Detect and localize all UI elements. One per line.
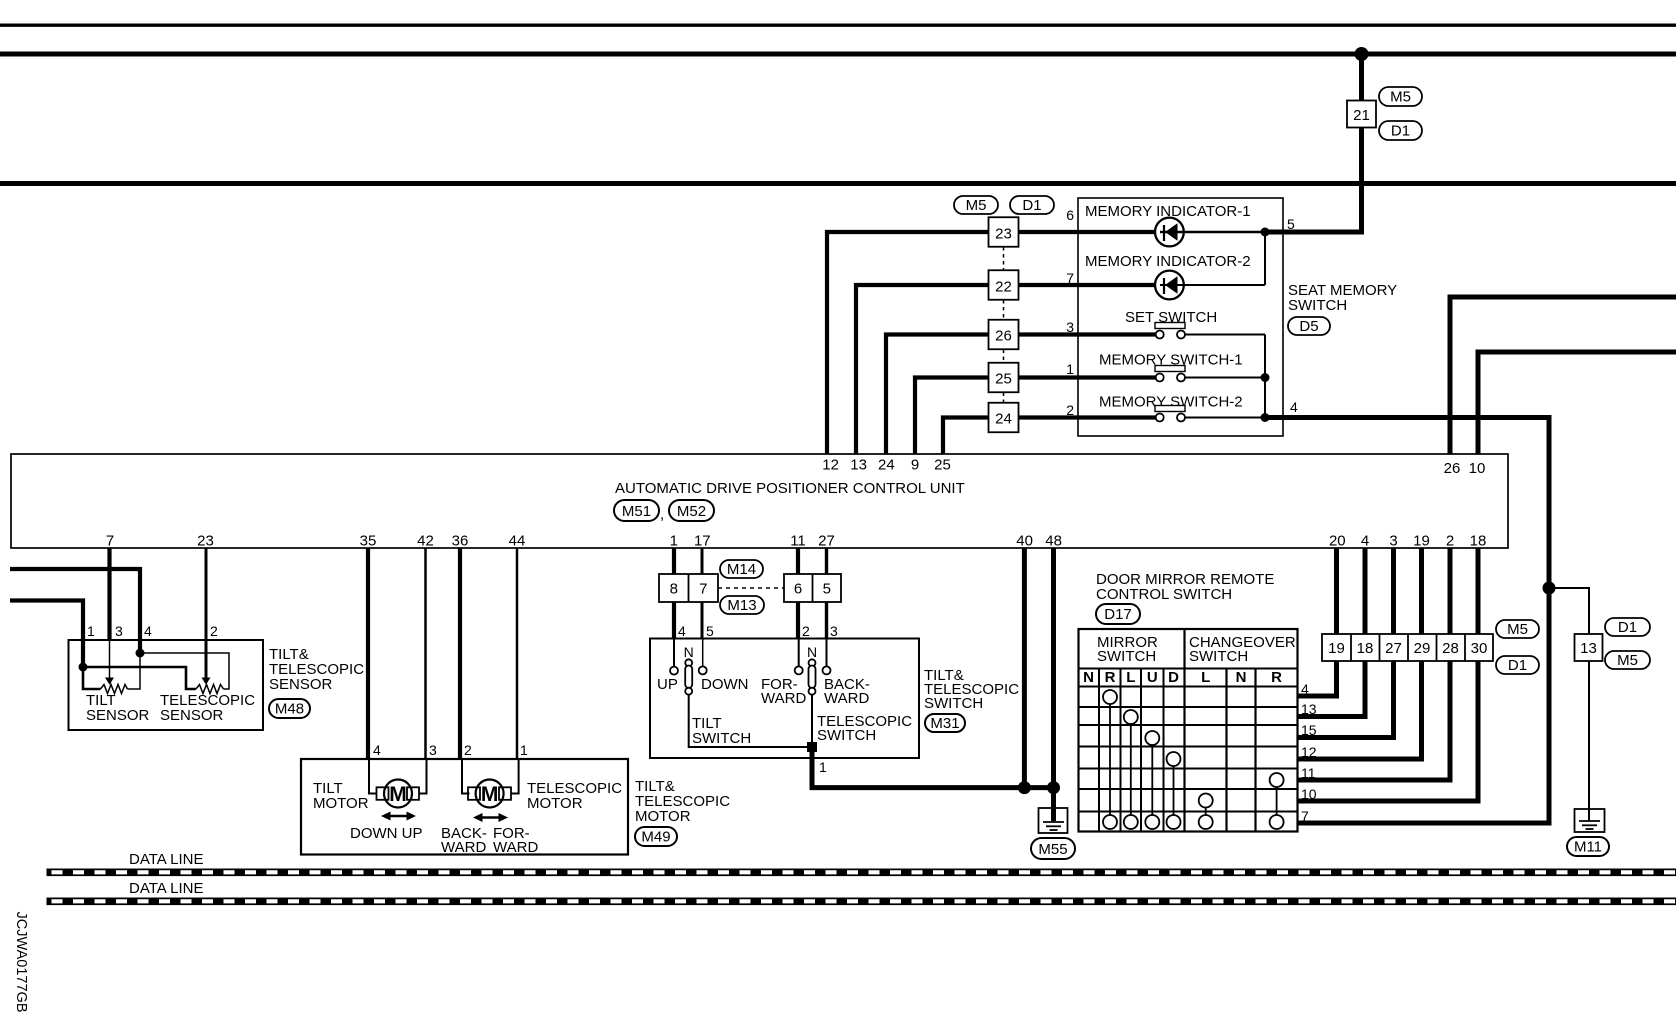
set switch (momentary) (1078, 323, 1265, 339)
wire: tilt lever common to junction (689, 695, 807, 747)
wire: pin4 net to telescopic pot right end (140, 653, 229, 689)
svg-text:21: 21 (1353, 107, 1370, 124)
svg-text:D1: D1 (1022, 197, 1041, 214)
svg-text:AUTOMATIC DRIVE POSITIONER CON: AUTOMATIC DRIVE POSITIONER CONTROL UNIT (615, 480, 965, 497)
wire: LED1 node down to LED2 (1264, 232, 1266, 285)
svg-text:D1: D1 (1618, 619, 1637, 636)
label: SEAT MEMORY SWITCH (1288, 282, 1397, 314)
switch internal: pin 5 lead and DOWN contact (699, 639, 707, 675)
tilt & telescopic switch M31 box (650, 639, 919, 759)
svg-text:7: 7 (106, 533, 114, 550)
svg-text:N: N (807, 644, 817, 660)
node: ground rail junction pin 48 (1047, 781, 1060, 794)
seat memory switch D5 (1078, 198, 1283, 436)
wire: motor pin 3 lead to tilt motor (419, 759, 427, 794)
svg-text:N: N (1083, 669, 1094, 686)
wire: pin 20 to mirror switch row 4 (1298, 548, 1337, 696)
wire: control unit pin 24 to connector 26 to seat memory pin 3 (886, 335, 1078, 455)
dashed link between connector pairs (718, 587, 784, 589)
svg-text:SWITCH: SWITCH (1189, 648, 1248, 665)
dashed links between stacked connectors (1003, 247, 1005, 403)
svg-text:M51: M51 (622, 503, 651, 520)
svg-text:12: 12 (1301, 744, 1317, 760)
svg-text:WARD: WARD (441, 839, 486, 856)
label: TILT & TELESCOPIC SENSOR (269, 646, 364, 693)
svg-text:23: 23 (995, 226, 1012, 243)
svg-text:18: 18 (1357, 640, 1374, 657)
label D1 oval (1379, 121, 1422, 140)
wire: motor pin 1 lead to telescopic motor (511, 759, 519, 794)
svg-text:5: 5 (1287, 216, 1295, 232)
svg-text:M5: M5 (1617, 652, 1638, 669)
svg-text:5: 5 (823, 581, 831, 598)
svg-text:13: 13 (1301, 701, 1317, 717)
wire: control unit pin 42 to motor box pin 3 (424, 548, 427, 759)
svg-text:MOTOR: MOTOR (635, 808, 691, 825)
mirror switch contact chain R column (1103, 690, 1117, 829)
node: sensor pin 1 junction (79, 663, 88, 672)
svg-text:1: 1 (819, 759, 827, 775)
telescopic motor direction arrow (473, 813, 508, 822)
svg-text:3: 3 (1066, 319, 1074, 335)
svg-text:7: 7 (699, 581, 707, 598)
tilt & telescopic sensor M48 (69, 640, 264, 730)
svg-text:CONTROL SWITCH: CONTROL SWITCH (1096, 586, 1232, 603)
label M14 oval (720, 560, 763, 578)
svg-text:29: 29 (1414, 640, 1431, 657)
power bus line 3 (0, 181, 1676, 186)
wire: control unit pin 12 to connector 23 to seat memory pin 6 (827, 232, 1078, 454)
svg-text:2: 2 (1066, 402, 1074, 418)
svg-text:N: N (684, 644, 694, 660)
svg-text:M11: M11 (1574, 839, 1602, 856)
svg-text:4: 4 (373, 742, 381, 758)
mirror switch contact chain L column (1124, 710, 1138, 829)
svg-text:10: 10 (1301, 786, 1317, 802)
svg-text:11: 11 (790, 533, 806, 550)
wire: control unit pin 11 to connector 6 to switch pin 2 (796, 548, 800, 639)
svg-text:DATA LINE: DATA LINE (129, 880, 203, 897)
svg-text:13: 13 (1580, 640, 1597, 657)
svg-text:M13: M13 (727, 597, 756, 614)
label M5 oval (connector 13) (1605, 651, 1650, 669)
svg-text:27: 27 (1385, 640, 1402, 657)
svg-text:7: 7 (1066, 270, 1074, 286)
svg-text:19: 19 (1328, 640, 1345, 657)
connector pair 6|5 (M14/M13) (784, 574, 841, 602)
svg-text:D: D (1168, 669, 1179, 686)
node: LED1 junction (1261, 228, 1270, 237)
svg-text:SWITCH: SWITCH (817, 727, 876, 744)
svg-text:4: 4 (1290, 399, 1298, 415)
telescopic switch lever (N) (807, 644, 817, 695)
svg-text:1: 1 (1066, 361, 1074, 377)
mirror switch contact chain U column (1145, 731, 1159, 829)
label M5 oval (strip) (1496, 620, 1539, 638)
label M31 oval (925, 714, 965, 732)
label M5 oval (above connector 23) (954, 196, 998, 214)
label M5 oval (1379, 87, 1422, 106)
connector 24 (989, 403, 1019, 433)
connector 25 (989, 363, 1019, 393)
tilt motor M (377, 780, 420, 808)
memory switch-1 (momentary) (1078, 366, 1265, 382)
wire: set switch node chain down to pin 4 row (1264, 335, 1266, 418)
label M13 oval (720, 596, 764, 614)
svg-text:5: 5 (706, 623, 714, 639)
tilt motor direction arrow (381, 812, 416, 821)
wire: control unit pin 27 to connector 5 to switch pin 3 (825, 548, 828, 639)
svg-text:40: 40 (1016, 533, 1033, 550)
svg-text:D17: D17 (1104, 606, 1132, 623)
svg-text:17: 17 (694, 533, 711, 550)
wire: seat memory pin 4 to mirror switch row 7 (long run) (1265, 418, 1549, 824)
memory indicator-1 LED (1078, 218, 1265, 247)
svg-text:SWITCH: SWITCH (1288, 297, 1347, 314)
node: junction on bus line 2 (1355, 47, 1369, 61)
switch internal: pin 2 lead and FOR-WARD contact (795, 639, 803, 675)
changeover switch contact chain R column (1270, 773, 1284, 829)
svg-text:JCJWA0177GB: JCJWA0177GB (13, 912, 29, 1013)
svg-text:M5: M5 (1507, 621, 1528, 638)
svg-text:42: 42 (417, 533, 434, 550)
svg-text:M31: M31 (930, 715, 959, 732)
wire: pin 2 to mirror switch row 11 (1298, 548, 1451, 780)
connector 21 (M5/D1) (1347, 101, 1376, 128)
label D1 oval (connector 13) (1605, 618, 1650, 636)
svg-text:L: L (1126, 669, 1135, 686)
switch internal: pin 4 lead and UP contact (670, 639, 678, 675)
svg-text:3: 3 (115, 623, 123, 639)
svg-text:DATA LINE: DATA LINE (129, 851, 203, 868)
svg-text:M: M (389, 783, 407, 806)
telescopic sensor potentiometer (196, 685, 224, 694)
svg-text:3: 3 (830, 623, 838, 639)
svg-text:1: 1 (670, 533, 678, 550)
label D5 oval (1288, 317, 1330, 335)
svg-text:26: 26 (1444, 460, 1461, 477)
node: ground rail junction pin 40 (1018, 781, 1031, 794)
label D17 oval (1096, 604, 1140, 624)
node: junction on pin4 run to ground branch (1543, 582, 1556, 595)
svg-text:U: U (1147, 669, 1158, 686)
switch internal: pin 3 lead and BACK-WARD contact (823, 639, 831, 675)
tilt & telescopic motor M49 box (301, 759, 628, 856)
connector strip 19 18 27 29 28 30 (1322, 634, 1493, 661)
data line 1 (CAN bus) (47, 869, 1676, 877)
svg-text:19: 19 (1413, 533, 1430, 550)
label D1 oval (above connector 23) (1010, 196, 1054, 214)
svg-text:MOTOR: MOTOR (313, 795, 369, 812)
telescopic motor M (468, 780, 511, 808)
wire: control unit pin 10 to right edge (1478, 352, 1676, 454)
svg-text:R: R (1105, 669, 1116, 686)
label: DOOR MIRROR REMOTE CONTROL SWITCH (1096, 571, 1274, 603)
wire: control unit pin 17 to connector 7 to switch pin 5 (701, 548, 704, 639)
wire: telescopic lever common to junction (811, 695, 813, 744)
power bus line 1 (0, 24, 1676, 27)
svg-text:R: R (1271, 669, 1282, 686)
connector 26 (989, 320, 1019, 350)
svg-text:3: 3 (429, 742, 437, 758)
svg-text:25: 25 (934, 457, 951, 474)
wire: control unit pin 1 to connector 8 to switch pin 4 (672, 548, 676, 639)
svg-text:WARD: WARD (761, 690, 806, 707)
mirror switch table D17 (1079, 629, 1298, 832)
changeover switch contact chain L column (1199, 794, 1213, 830)
wire: control unit pin 25 to connector 24 to seat memory pin 2 (943, 418, 1078, 455)
svg-text:7: 7 (1301, 808, 1309, 824)
svg-text:27: 27 (818, 533, 835, 550)
svg-text:6: 6 (794, 581, 802, 598)
svg-text:SWITCH: SWITCH (692, 730, 751, 747)
svg-text:1: 1 (87, 623, 95, 639)
svg-text:M14: M14 (727, 561, 756, 578)
svg-text:SWITCH: SWITCH (1097, 648, 1156, 665)
wire: control unit pin 36 to motor box pin 2 (458, 548, 462, 759)
control unit bottom pin labels (106, 533, 1487, 550)
node: memory switch-1 junction (1261, 373, 1270, 382)
label: TILT & TELESCOPIC SWITCH (924, 667, 1019, 712)
power bus line 2 (0, 52, 1676, 57)
wire: pin1 net to tilt pot left end (83, 667, 101, 689)
label M48 oval (269, 699, 310, 718)
tilt sensor potentiometer (101, 685, 128, 694)
wire: control unit pin 44 to motor box pin 1 (516, 548, 519, 759)
label M49 oval (635, 827, 677, 846)
wire: pin 18 to mirror switch row 10 (1298, 548, 1479, 801)
svg-text:36: 36 (452, 533, 469, 550)
svg-text:4: 4 (678, 623, 686, 639)
connector 13 (D1/M5) (1575, 634, 1603, 661)
svg-text:SENSOR: SENSOR (160, 707, 224, 724)
svg-text:SENSOR: SENSOR (86, 707, 150, 724)
mirror switch row pin labels 4 13 15 12 11 10 7 (1301, 681, 1317, 824)
svg-text:M52: M52 (677, 503, 706, 520)
svg-text:28: 28 (1442, 640, 1459, 657)
svg-text:26: 26 (995, 328, 1012, 345)
svg-text:9: 9 (911, 457, 919, 474)
svg-text:L: L (1201, 669, 1210, 686)
connector 22 (989, 270, 1019, 300)
ground symbol M55 (1039, 788, 1068, 833)
wire: control unit pin 9 to connector 25 to seat memory pin 1 (915, 378, 1078, 455)
svg-text:23: 23 (197, 533, 214, 550)
svg-text:4: 4 (1361, 533, 1369, 550)
wire: pin 19 to mirror switch row 12 (1298, 548, 1422, 759)
svg-text:6: 6 (1066, 207, 1074, 223)
svg-text:M5: M5 (1390, 89, 1411, 106)
svg-text:30: 30 (1471, 640, 1488, 657)
node: switch common junction (square) (807, 742, 817, 752)
svg-text:35: 35 (360, 533, 377, 550)
svg-text:WARD: WARD (493, 839, 538, 856)
svg-text:M55: M55 (1038, 841, 1067, 858)
wire: off-page feed to tilt sensor pin 1 (10, 601, 83, 668)
label M51 oval (614, 500, 664, 523)
wire: pin4 net to tilt pot right end (128, 653, 141, 689)
wire: pin1 net to telescopic pot left end (83, 667, 196, 689)
svg-text:44: 44 (509, 533, 526, 550)
svg-text:D1: D1 (1508, 657, 1527, 674)
wire: control unit pin 48 to ground rail (1051, 548, 1056, 788)
wire: motor pin 2 lead to telescopic motor (462, 759, 470, 794)
wire: pin 3 to mirror switch row 15 (1298, 548, 1394, 738)
svg-text:4: 4 (144, 623, 152, 639)
wire: battery feed drop to seat memory switch pin 5 (1265, 54, 1362, 232)
sensor pin labels 1 3 4 2 (87, 623, 218, 639)
control unit top pin labels 12 13 24 9 25 (822, 457, 1485, 478)
wire: control unit pin 35 to motor box pin 4 (366, 548, 370, 759)
svg-text:DOWN: DOWN (701, 676, 749, 693)
svg-text:M49: M49 (641, 829, 670, 846)
wire: control unit pin 13 to connector 22 to seat memory pin 7 (856, 285, 1078, 454)
svg-text:8: 8 (670, 581, 678, 598)
wire: control unit pin 23 to sensor pin 2 (205, 548, 208, 640)
wire: control unit pin 40 to ground rail (1022, 548, 1027, 788)
motor box pin labels 4 3 2 1 (373, 742, 528, 758)
svg-text:2: 2 (1446, 533, 1454, 550)
svg-text:24: 24 (878, 457, 895, 474)
svg-text:D1: D1 (1391, 123, 1410, 140)
wire: ground branch from pin4 run to connector 13 and M11 (1549, 588, 1589, 821)
wire: off-page feed to tilt sensor pin 4 (10, 569, 140, 653)
svg-text:22: 22 (995, 279, 1012, 296)
automatic drive positioner control unit M51,M52 (11, 454, 1508, 548)
svg-text:13: 13 (850, 457, 867, 474)
label M52 oval (669, 500, 714, 521)
node: memory switch-2 junction (1261, 413, 1270, 422)
wire: pin 4 to mirror switch row 13 (1298, 548, 1366, 717)
switch pin labels 4 5 2 3 (678, 623, 838, 639)
svg-text:24: 24 (995, 411, 1012, 428)
wire: motor pin 4 lead to tilt motor (369, 759, 377, 794)
label: TILT & TELESCOPIC MOTOR (635, 778, 730, 825)
telescopic sensor wiper arrow (pin 2) (202, 640, 211, 685)
svg-text:M48: M48 (275, 701, 304, 718)
svg-text:WARD: WARD (824, 690, 869, 707)
svg-text:10: 10 (1469, 460, 1486, 477)
label M11 oval (1567, 837, 1609, 856)
svg-text:11: 11 (1301, 765, 1316, 781)
svg-text:SENSOR: SENSOR (269, 676, 333, 693)
svg-text:MEMORY INDICATOR-2: MEMORY INDICATOR-2 (1085, 253, 1251, 270)
svg-text:2: 2 (210, 623, 218, 639)
node: sensor pin 4 junction (136, 649, 145, 658)
tilt switch lever (N) (684, 644, 694, 695)
connector 23 (989, 217, 1019, 247)
svg-text:3: 3 (1389, 533, 1397, 550)
ground symbol M11 (1575, 809, 1605, 832)
connector pair 8|7 (M14/M13) (659, 574, 718, 602)
mirror switch contact chain D column (1167, 752, 1181, 829)
svg-text:N: N (1236, 669, 1247, 686)
svg-text:DOWN UP: DOWN UP (350, 825, 423, 842)
wire: control unit pin 7 to sensor pin 3 (107, 548, 111, 640)
memory indicator-2 LED (1078, 271, 1265, 300)
svg-text:M5: M5 (966, 197, 987, 214)
svg-text:4: 4 (1301, 681, 1309, 697)
wire: control unit pin 26 to right edge (1450, 297, 1676, 454)
memory switch-2 (momentary) (1078, 406, 1265, 422)
wire: switch pin 1 to ground rail (812, 747, 1054, 788)
svg-text:SWITCH: SWITCH (924, 695, 983, 712)
svg-text:12: 12 (822, 457, 839, 474)
svg-text:25: 25 (995, 371, 1012, 388)
svg-text:15: 15 (1301, 722, 1317, 738)
svg-text:2: 2 (802, 623, 810, 639)
svg-text:,: , (660, 506, 664, 523)
svg-text:UP: UP (657, 676, 678, 693)
svg-text:M: M (481, 783, 499, 806)
svg-text:1: 1 (520, 742, 528, 758)
svg-text:18: 18 (1470, 533, 1487, 550)
svg-text:20: 20 (1329, 533, 1346, 550)
tilt sensor wiper arrow (pin 3) (105, 640, 114, 685)
label M55 oval (1031, 838, 1075, 859)
svg-text:D5: D5 (1299, 318, 1318, 335)
data line 2 (CAN bus) (47, 898, 1676, 906)
label D1 oval (strip) (1496, 656, 1539, 674)
svg-text:2: 2 (464, 742, 472, 758)
svg-text:MOTOR: MOTOR (527, 795, 583, 812)
svg-text:48: 48 (1045, 533, 1062, 550)
